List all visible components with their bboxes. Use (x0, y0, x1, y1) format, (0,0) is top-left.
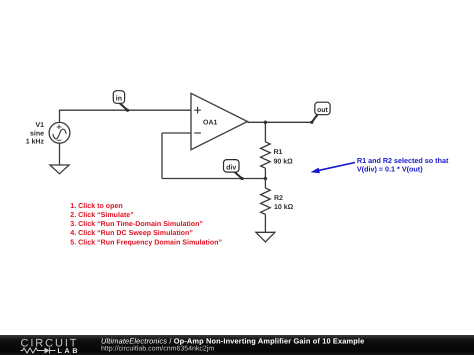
CircuitLab logo resistor-diode glyph (21, 348, 56, 354)
svg-text:10 kΩ: 10 kΩ (274, 203, 294, 211)
wire R1 top lead (264, 122, 266, 142)
ground under V1 (50, 165, 69, 174)
node flag div (224, 160, 244, 180)
svg-text:V1: V1 (35, 122, 44, 129)
resistor R2 (261, 188, 271, 214)
svg-text:2. Click “Simulate”: 2. Click “Simulate” (70, 211, 134, 219)
wire in net: source top to op-amp + input (60, 110, 192, 122)
svg-text:in: in (116, 94, 122, 102)
label V1 value (26, 122, 45, 145)
svg-text:3. Click “Run Time-Domain Simu: 3. Click “Run Time-Domain Simulation” (70, 220, 203, 228)
svg-text:R1: R1 (274, 149, 283, 156)
annotation arrow blue (311, 163, 356, 174)
label R1 value (274, 149, 294, 165)
svg-text:1. Click to open: 1. Click to open (70, 202, 122, 210)
svg-text:90 kΩ: 90 kΩ (274, 158, 294, 166)
svg-text:LAB: LAB (58, 348, 81, 355)
svg-text:out: out (317, 107, 329, 114)
op-amp OA1 (191, 93, 248, 149)
wire out net (248, 121, 312, 123)
svg-text:5. Click “Run Frequency Domain: 5. Click “Run Frequency Domain Simulatio… (70, 238, 222, 246)
annotation text blue (357, 156, 449, 173)
svg-text:1 kHz: 1 kHz (26, 138, 45, 146)
junction dot out/R1 (264, 121, 268, 125)
wire R2 bottom lead (264, 214, 266, 232)
wire div net horizontal (162, 178, 265, 180)
svg-text:4. Click “Run DC Sweep Simulat: 4. Click “Run DC Sweep Simulation” (70, 229, 193, 237)
svg-text:V(div) = 0.1 * V(out): V(div) = 0.1 * V(out) (357, 164, 423, 173)
node flag in (113, 91, 129, 112)
resistor R1 (261, 142, 271, 168)
ground under R2 (256, 232, 275, 242)
svg-text:R2: R2 (274, 195, 283, 202)
svg-text:OA1: OA1 (203, 120, 218, 127)
voltage source V1 (49, 122, 70, 143)
svg-text:UltimateElectronics / Op-Amp N: UltimateElectronics / Op-Amp Non-Inverti… (101, 337, 364, 346)
wire op-amp minus input (162, 132, 191, 134)
wire R2 top lead (264, 179, 266, 189)
annotation list red (70, 202, 222, 247)
svg-text:div: div (226, 164, 236, 172)
svg-text:http://circuitlab.com/cnm6354n: http://circuitlab.com/cnm6354nkc2jm (101, 345, 214, 353)
svg-text:sine: sine (30, 129, 44, 137)
wire R1 bottom lead (264, 168, 266, 178)
junction dot div/R1/R2 (264, 177, 268, 181)
node flag out (310, 102, 330, 124)
wire V1 bottom lead (59, 143, 61, 165)
wire feedback vertical (161, 133, 163, 179)
label R2 value (274, 195, 294, 211)
